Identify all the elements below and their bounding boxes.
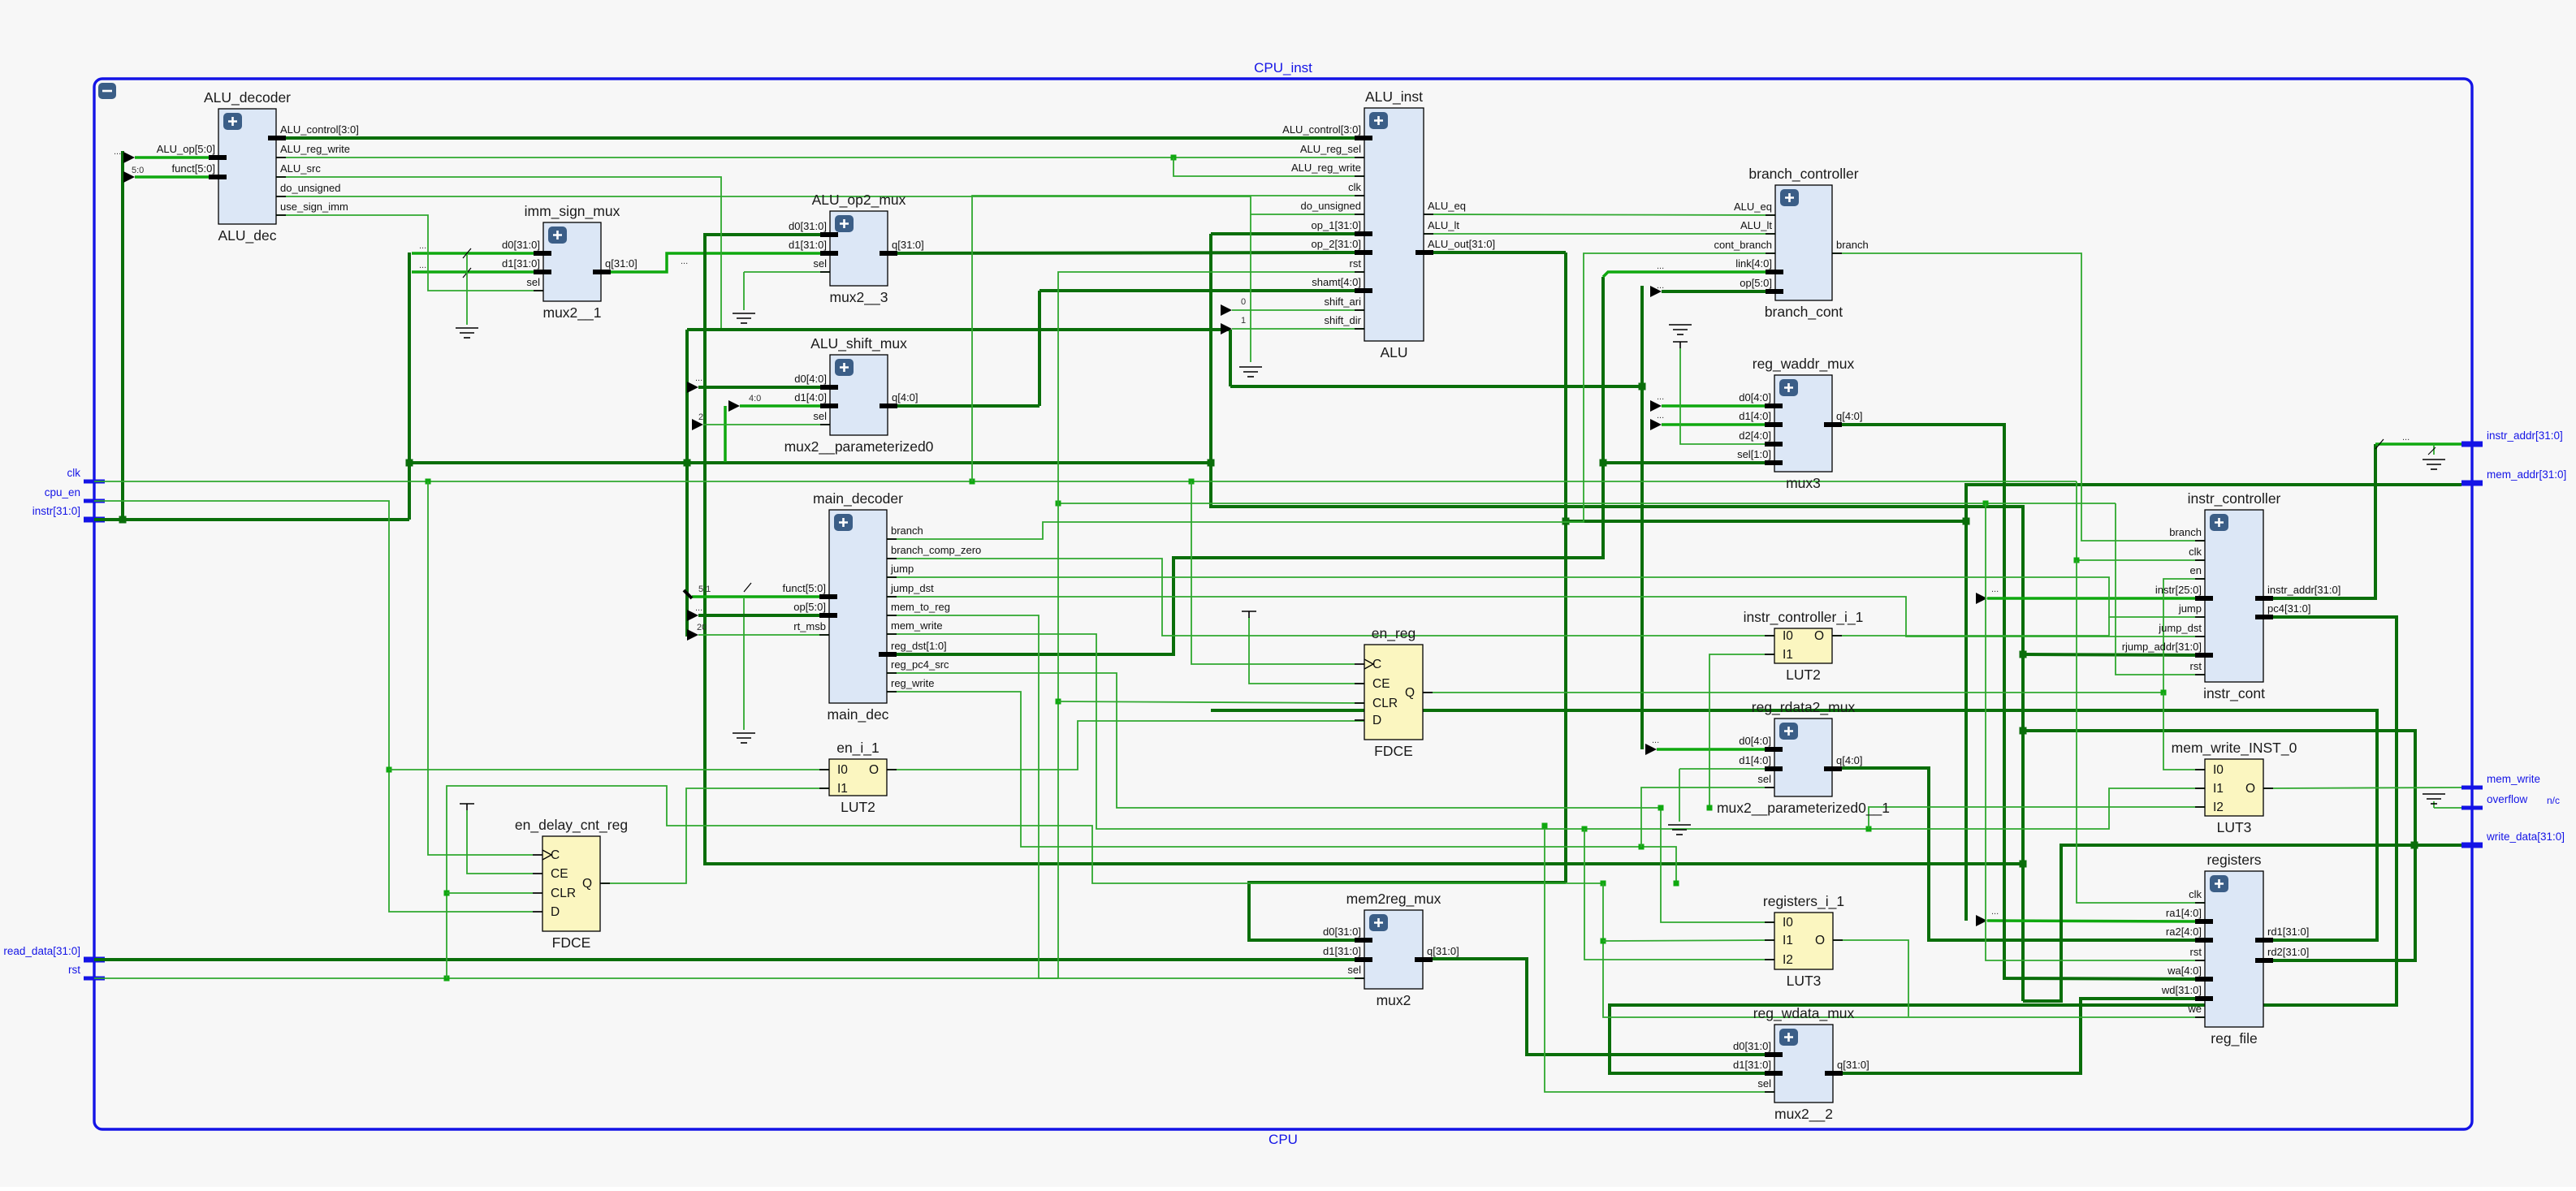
ground mux3 d2 bbox=[1669, 325, 1692, 334]
svg-text:...: ... bbox=[114, 147, 121, 157]
svg-text:I1: I1 bbox=[1783, 934, 1793, 947]
svg-text:mux3: mux3 bbox=[1786, 475, 1821, 491]
wire en_delay Q to en_i_1 I1 bbox=[602, 788, 829, 883]
ground under funct tap bbox=[733, 733, 755, 743]
svg-text:sel: sel bbox=[1757, 773, 1771, 785]
svg-text:C: C bbox=[1372, 658, 1381, 671]
wire rjump_addr to instr_cont bbox=[2023, 654, 2205, 655]
svg-text:d0[31:0]: d0[31:0] bbox=[789, 220, 827, 232]
ground ALU do_unsigned bbox=[1239, 367, 1262, 377]
svg-text:I1: I1 bbox=[2213, 782, 2224, 796]
block instr_controller_i_1 LUT2 bbox=[1744, 609, 1864, 683]
svg-text:jump_dst: jump_dst bbox=[2158, 622, 2202, 634]
wire instr vertical left bbox=[121, 151, 124, 520]
wire rdata2 d0 slice bbox=[1657, 748, 1774, 751]
const1 tie en_delay CE bbox=[460, 804, 474, 810]
svg-text:mem_addr[31:0]: mem_addr[31:0] bbox=[2487, 468, 2566, 481]
junction instr maindec bbox=[684, 460, 691, 467]
wire pc4 to wdata d1 bbox=[1610, 617, 2397, 1073]
svg-text:CE: CE bbox=[1372, 677, 1390, 691]
svg-text:rt_msb: rt_msb bbox=[793, 620, 826, 632]
wire rd2 to write_data bbox=[2023, 845, 2461, 1001]
svg-text:O: O bbox=[2245, 782, 2255, 796]
svg-text:...: ... bbox=[1657, 411, 1664, 421]
svg-text:branch_comp_zero: branch_comp_zero bbox=[891, 544, 981, 556]
svg-text:C: C bbox=[551, 848, 560, 862]
wire clk to registers bbox=[2077, 560, 2205, 903]
wire branch to cont_branch bbox=[887, 253, 1775, 539]
svg-text:write_data[31:0]: write_data[31:0] bbox=[2486, 831, 2565, 843]
wire shift_dir bbox=[1232, 328, 1364, 330]
junction we I1 bbox=[1601, 939, 1606, 944]
svg-text:branch: branch bbox=[891, 524, 923, 537]
wire jump_dst bbox=[887, 597, 2205, 636]
block registers bbox=[2161, 852, 2309, 1047]
svg-text:ALU_shift_mux: ALU_shift_mux bbox=[810, 335, 907, 352]
svg-text:en_reg: en_reg bbox=[1372, 625, 1416, 642]
wire to we bbox=[1603, 883, 2205, 1017]
svg-text:LUT3: LUT3 bbox=[2217, 819, 2252, 835]
svg-text:...: ... bbox=[2402, 433, 2410, 442]
block registers_i_1 LUT3 bbox=[1763, 893, 1844, 989]
wire instr trunk y570 bbox=[409, 461, 1211, 464]
svg-text:reg_dst[1:0]: reg_dst[1:0] bbox=[891, 640, 947, 652]
svg-text:5:0: 5:0 bbox=[132, 166, 144, 175]
wire cpu_en to en_i_1 I0 bbox=[389, 769, 829, 770]
wire tie to ground bbox=[466, 255, 468, 325]
svg-text:op[5:0]: op[5:0] bbox=[1740, 277, 1772, 289]
wire rst to en_delay CLR bbox=[447, 892, 533, 894]
svg-text:d1[31:0]: d1[31:0] bbox=[1733, 1059, 1771, 1071]
wire link slice bbox=[1603, 272, 1775, 277]
wire instr_addr slice bbox=[2375, 442, 2461, 446]
junction rst bbox=[444, 976, 450, 982]
wire instr vert to ra1 bbox=[1964, 521, 1968, 921]
svg-text:sel: sel bbox=[1347, 964, 1361, 976]
svg-text:D: D bbox=[1372, 714, 1381, 727]
svg-text:en_delay_cnt_reg: en_delay_cnt_reg bbox=[515, 817, 628, 834]
svg-text:clk: clk bbox=[2189, 888, 2202, 900]
wire registers_i_1 O to we bbox=[1833, 940, 1908, 1016]
svg-text:registers_i_1: registers_i_1 bbox=[1763, 893, 1844, 910]
block ALU_op2_mux bbox=[789, 192, 924, 306]
svg-text:Q: Q bbox=[1405, 686, 1415, 700]
svg-text:sel: sel bbox=[526, 276, 540, 288]
junction clk instr_cont bbox=[2074, 558, 2080, 563]
svg-text:mem2reg_mux: mem2reg_mux bbox=[1346, 891, 1441, 908]
port overflow bbox=[2461, 806, 2483, 810]
svg-text:ALU_op[5:0]: ALU_op[5:0] bbox=[157, 143, 215, 155]
svg-text:mux2__parameterized0: mux2__parameterized0 bbox=[784, 438, 934, 455]
svg-text:FDCE: FDCE bbox=[1374, 743, 1413, 759]
svg-text:...: ... bbox=[1652, 736, 1659, 745]
svg-text:mem_write: mem_write bbox=[2487, 773, 2540, 785]
wire ALU_control bus decoder to ALU bbox=[276, 136, 1364, 140]
svg-text:ra1[4:0]: ra1[4:0] bbox=[2166, 907, 2202, 919]
svg-text:ALU_control[3:0]: ALU_control[3:0] bbox=[280, 123, 359, 136]
svg-text:jump: jump bbox=[890, 563, 914, 575]
svg-text:d1[4:0]: d1[4:0] bbox=[1739, 754, 1771, 766]
svg-text:instr[25:0]: instr[25:0] bbox=[2155, 584, 2202, 596]
svg-text:mux2: mux2 bbox=[1377, 992, 1411, 1008]
svg-text:branch: branch bbox=[2169, 526, 2202, 538]
block ALU_decoder bbox=[157, 89, 359, 244]
svg-text:clk: clk bbox=[67, 467, 81, 479]
wire funct tie bbox=[743, 598, 745, 730]
junction write_data bbox=[2411, 842, 2418, 849]
svg-text:branch_cont: branch_cont bbox=[1765, 304, 1843, 321]
wire reg_write down bbox=[887, 692, 1676, 883]
junction rst x1303 bbox=[1056, 501, 1061, 507]
wire mux3 d0 slice bbox=[1662, 404, 1774, 408]
svg-text:shamt[4:0]: shamt[4:0] bbox=[1312, 276, 1361, 288]
wire imm d1 slice bbox=[412, 270, 543, 274]
svg-text:20: 20 bbox=[697, 623, 707, 632]
svg-text:...: ... bbox=[695, 373, 702, 383]
svg-text:1: 1 bbox=[1241, 316, 1246, 326]
wire overflow nc bbox=[2434, 807, 2461, 809]
svg-text:sel: sel bbox=[813, 257, 827, 270]
block instr_controller bbox=[2122, 490, 2341, 702]
svg-text:overflow: overflow bbox=[2487, 793, 2528, 805]
svg-text:d0[4:0]: d0[4:0] bbox=[1739, 735, 1771, 747]
svg-text:ALU: ALU bbox=[1380, 344, 1407, 360]
wire instr_addr up bbox=[2263, 444, 2375, 598]
svg-text:rjump_addr[31:0]: rjump_addr[31:0] bbox=[2122, 641, 2202, 653]
svg-text:clk: clk bbox=[1348, 181, 1361, 193]
junction rd2 instr vertical bbox=[2020, 727, 2027, 735]
wire ALU_out down bbox=[1564, 252, 1567, 882]
junction I2 feed bbox=[1582, 826, 1588, 832]
wire rst trunk right bbox=[1058, 503, 2116, 504]
svg-text:d0[31:0]: d0[31:0] bbox=[502, 239, 540, 251]
collapse icon bbox=[98, 83, 116, 99]
svg-text:sel: sel bbox=[813, 410, 827, 422]
svg-text:instr_controller: instr_controller bbox=[2188, 490, 2281, 507]
ground under imm_sign_mux bbox=[456, 328, 478, 338]
wire imm q to op2mux d1 bbox=[601, 253, 830, 272]
svg-text:funct[5:0]: funct[5:0] bbox=[172, 162, 215, 175]
svg-text:instr_addr[31:0]: instr_addr[31:0] bbox=[2267, 584, 2340, 596]
wire do_unsigned bbox=[276, 196, 1364, 214]
svg-text:...: ... bbox=[419, 261, 426, 270]
port instr[31:0] bbox=[84, 517, 105, 523]
svg-text:...: ... bbox=[1991, 907, 1999, 917]
wire mux3 d1 slice bbox=[1662, 423, 1774, 426]
wire instr_controller_i_1 O bbox=[1833, 635, 2109, 636]
wire instr[31:0] from port bbox=[94, 518, 409, 521]
wire funct slice bbox=[692, 595, 829, 598]
wire mem_addr from ALU_out bbox=[1564, 485, 2461, 521]
svg-text:wd[31:0]: wd[31:0] bbox=[2161, 984, 2202, 996]
wire rd1 feedback to op1 bbox=[1211, 710, 2377, 940]
block en_i_1 LUT2 bbox=[819, 740, 897, 815]
wire mem2reg q to wdata d0 bbox=[1423, 959, 1774, 1055]
wire en_reg CE bbox=[1249, 617, 1364, 684]
svg-text:CLR: CLR bbox=[1372, 697, 1398, 710]
svg-text:ALU_eq: ALU_eq bbox=[1428, 200, 1466, 212]
svg-text:q[31:0]: q[31:0] bbox=[892, 239, 924, 251]
wire instr x1515 bbox=[1229, 330, 1232, 386]
svg-text:registers: registers bbox=[2206, 852, 2261, 868]
wire imm d0 slice bbox=[412, 252, 543, 255]
wire mux3 q to registers wa bbox=[1832, 425, 2205, 979]
svg-text:4:0: 4:0 bbox=[749, 394, 761, 403]
wire op2mux q to ALU op_2 bbox=[888, 252, 1364, 253]
svg-text:d1[31:0]: d1[31:0] bbox=[1323, 945, 1361, 957]
wire tie down bbox=[1250, 214, 1251, 362]
svg-text:ALU_dec: ALU_dec bbox=[218, 227, 277, 244]
port write_data[31:0] bbox=[2461, 843, 2483, 848]
junction instr y570 bbox=[406, 460, 413, 467]
wire instr vertical x2022 bbox=[1640, 286, 1644, 749]
wire wdata q to registers wd bbox=[1833, 999, 2205, 1073]
junction clk ALU bbox=[970, 479, 975, 485]
wire funct slice bbox=[135, 175, 218, 179]
svg-text:0: 0 bbox=[1241, 297, 1246, 307]
svg-text:d0[4:0]: d0[4:0] bbox=[1739, 391, 1771, 403]
svg-text:CLR: CLR bbox=[551, 887, 576, 900]
svg-text:reg_waddr_mux: reg_waddr_mux bbox=[1753, 356, 1855, 373]
wire en_i_1 O to en_reg D bbox=[887, 721, 1364, 770]
wire instr vertical mid bbox=[408, 252, 411, 520]
wire mem_write out bbox=[2263, 788, 2461, 788]
svg-text:q[4:0]: q[4:0] bbox=[892, 391, 918, 403]
junction I1 feed bbox=[1601, 881, 1606, 887]
wire shift d1 bbox=[740, 404, 830, 408]
wire clk to en_reg C bbox=[1191, 481, 1355, 664]
wire rst to ALU bbox=[1058, 272, 1364, 978]
svg-text:d0[31:0]: d0[31:0] bbox=[1733, 1040, 1771, 1052]
junction instr2 x2022 bbox=[1639, 383, 1646, 391]
wire en_reg Q to en bbox=[1423, 579, 2205, 693]
wire ALU_eq bbox=[1424, 214, 1775, 215]
block branch_controller bbox=[1714, 166, 1868, 321]
block reg_rdata2_mux bbox=[1717, 699, 1890, 817]
block ALU_inst bbox=[1282, 88, 1495, 360]
wire jump bbox=[887, 577, 2205, 617]
svg-text:imm_sign_mux: imm_sign_mux bbox=[525, 203, 620, 220]
junction reg_write step bbox=[1171, 155, 1177, 161]
wire op slice to branch_cont bbox=[1662, 290, 1775, 293]
svg-text:ALU_control[3:0]: ALU_control[3:0] bbox=[1282, 123, 1361, 136]
svg-text:mem_write_INST_0: mem_write_INST_0 bbox=[2172, 740, 2297, 757]
svg-text:q[4:0]: q[4:0] bbox=[1836, 410, 1863, 422]
wire ALU op_1 input bbox=[1211, 232, 1364, 235]
svg-text:...: ... bbox=[1991, 585, 1999, 594]
wire op2mux sel bbox=[744, 271, 830, 273]
block main_decoder bbox=[783, 490, 982, 723]
svg-text:main_decoder: main_decoder bbox=[813, 490, 903, 507]
junction mem_write bbox=[1866, 826, 1872, 832]
svg-text:I0: I0 bbox=[2213, 763, 2224, 777]
svg-text:sel[1:0]: sel[1:0] bbox=[1737, 448, 1771, 460]
wire reg_dst chain bbox=[887, 277, 1603, 654]
svg-text:instr_cont: instr_cont bbox=[2203, 685, 2265, 702]
junction instr left bbox=[119, 516, 127, 524]
svg-text:...: ... bbox=[695, 603, 702, 613]
wire clk to instr_cont bbox=[2077, 481, 2205, 560]
svg-text:CE: CE bbox=[551, 867, 568, 881]
svg-text:I1: I1 bbox=[837, 782, 848, 796]
svg-text:mux2__parameterized0__1: mux2__parameterized0__1 bbox=[1717, 800, 1890, 817]
wire instr y406 line bbox=[687, 328, 1230, 331]
wire shift mux q bbox=[888, 404, 1039, 408]
wire rst from port bbox=[94, 977, 1058, 979]
svg-text:wa[4:0]: wa[4:0] bbox=[2167, 964, 2202, 977]
wire reg_pc4_src bbox=[887, 673, 1774, 922]
svg-text:instr_controller_i_1: instr_controller_i_1 bbox=[1744, 609, 1864, 626]
junction reg_dst sel bbox=[1600, 460, 1607, 467]
ground op2mux sel bbox=[733, 313, 755, 323]
svg-text:shift_ari: shift_ari bbox=[1324, 296, 1361, 308]
svg-text:d1[31:0]: d1[31:0] bbox=[502, 257, 540, 270]
wire rst to instr_cont bbox=[2116, 503, 2205, 675]
svg-text:D: D bbox=[551, 905, 560, 919]
block en_delay_cnt_reg FDCE bbox=[515, 817, 628, 951]
svg-text:q[4:0]: q[4:0] bbox=[1836, 754, 1863, 766]
block mem2reg_mux bbox=[1323, 891, 1459, 1008]
wire ALU_out to mem2reg d0 bbox=[1249, 882, 1566, 940]
svg-text:mem_write: mem_write bbox=[891, 619, 943, 632]
wire mux3 sel bbox=[1603, 461, 1774, 464]
port mem_write bbox=[2461, 786, 2483, 790]
svg-text:O: O bbox=[869, 763, 879, 777]
junction en bbox=[2161, 690, 2167, 696]
svg-text:shift_dir: shift_dir bbox=[1324, 314, 1361, 326]
svg-text:we: we bbox=[2187, 1003, 2202, 1015]
svg-text:ALU_src: ALU_src bbox=[280, 162, 321, 175]
wire ALU_out bbox=[1424, 251, 1566, 254]
svg-text:I0: I0 bbox=[837, 763, 848, 777]
junction wdata sel bbox=[1542, 823, 1548, 829]
port cpu_en bbox=[84, 499, 105, 503]
junction cpu_en bbox=[387, 767, 392, 773]
wire rdata2 q to ra2 bbox=[1833, 768, 2205, 940]
wire ALU_src down bbox=[276, 177, 721, 328]
junction clk en_reg bbox=[1189, 479, 1195, 485]
svg-text:do_unsigned: do_unsigned bbox=[1301, 200, 1361, 212]
svg-text:reg_rdata2_mux: reg_rdata2_mux bbox=[1752, 699, 1856, 716]
svg-text:ALU_reg_write: ALU_reg_write bbox=[280, 143, 350, 155]
wire clk to en_delay C bbox=[428, 481, 533, 855]
wire clk trunk bbox=[94, 481, 2077, 482]
wire shift sel bbox=[703, 424, 830, 425]
svg-text:clk: clk bbox=[2189, 546, 2202, 558]
svg-text:cont_branch: cont_branch bbox=[1714, 239, 1772, 251]
junction reg_write sel bbox=[1639, 844, 1645, 850]
svg-text:I0: I0 bbox=[1783, 629, 1793, 643]
svg-text:read_data[31:0]: read_data[31:0] bbox=[3, 945, 80, 957]
wire shamt into ALU bbox=[1039, 289, 1364, 292]
wire shift_ari bbox=[1232, 309, 1364, 311]
wire y476 trunk bbox=[1230, 385, 1642, 388]
svg-text:n/c: n/c bbox=[2547, 795, 2560, 806]
svg-text:branch: branch bbox=[1836, 239, 1869, 251]
wire wdata sel bbox=[1545, 826, 1774, 1092]
wire shift d1 riser bbox=[724, 406, 727, 462]
junction rst registers bbox=[1983, 501, 1989, 507]
svg-text:LUT3: LUT3 bbox=[1787, 973, 1822, 989]
svg-text:Q: Q bbox=[582, 877, 592, 891]
svg-text:op[5:0]: op[5:0] bbox=[793, 601, 826, 613]
svg-text:rd2[31:0]: rd2[31:0] bbox=[2267, 946, 2309, 958]
svg-text:d1[4:0]: d1[4:0] bbox=[1739, 410, 1771, 422]
svg-text:d2[4:0]: d2[4:0] bbox=[1739, 429, 1771, 442]
wire branch_comp_zero bbox=[887, 559, 1774, 636]
wire to registers_i_1 I2 bbox=[1584, 829, 1774, 960]
port rst bbox=[84, 977, 105, 981]
svg-text:mux2__3: mux2__3 bbox=[830, 289, 888, 306]
wire shift d0 bbox=[698, 386, 830, 389]
wire rt_msb slice bbox=[698, 634, 829, 636]
junction I1 lut2 bbox=[1707, 805, 1713, 811]
svg-text:I1: I1 bbox=[1783, 648, 1793, 662]
wire instr tap main_dec bbox=[685, 330, 689, 636]
svg-text:mux2__1: mux2__1 bbox=[543, 304, 602, 321]
svg-text:ra2[4:0]: ra2[4:0] bbox=[2166, 926, 2202, 938]
wire op slice bbox=[698, 614, 829, 617]
svg-text:cpu_en: cpu_en bbox=[45, 486, 80, 498]
const1 tie en_reg bbox=[1242, 611, 1256, 618]
svg-text:q[31:0]: q[31:0] bbox=[1837, 1059, 1869, 1071]
wire rst staircase bbox=[447, 786, 1603, 978]
svg-text:I2: I2 bbox=[2213, 800, 2224, 814]
svg-text:link[4:0]: link[4:0] bbox=[1735, 257, 1772, 270]
junction ALU_out memaddr bbox=[1562, 518, 1570, 525]
wire read_data to mem2reg d1 bbox=[94, 958, 1364, 961]
svg-text:en: en bbox=[2190, 564, 2202, 576]
svg-text:ALU_eq: ALU_eq bbox=[1734, 201, 1772, 213]
svg-text:mux2__2: mux2__2 bbox=[1774, 1106, 1833, 1123]
port read_data[31:0] bbox=[84, 957, 105, 963]
wire rst to registers bbox=[1986, 503, 2205, 960]
svg-text:2: 2 bbox=[698, 412, 703, 422]
wire rdata2 sel bbox=[1641, 788, 1775, 847]
svg-text:ALU_reg_sel: ALU_reg_sel bbox=[1300, 143, 1361, 155]
wire ALU_op slice bbox=[135, 156, 218, 159]
wire en to LUT3 I0 bbox=[2163, 693, 2205, 770]
svg-text:LUT2: LUT2 bbox=[841, 799, 875, 815]
wire instr_controller_i_1 I1 bbox=[1709, 654, 1774, 808]
svg-text:mem_to_reg: mem_to_reg bbox=[891, 601, 950, 613]
svg-text:instr[31:0]: instr[31:0] bbox=[32, 505, 80, 517]
svg-text:pc4[31:0]: pc4[31:0] bbox=[2267, 602, 2311, 615]
svg-text:CPU_inst: CPU_inst bbox=[1254, 60, 1312, 76]
svg-text:CPU: CPU bbox=[1269, 1132, 1298, 1147]
svg-text:op_2[31:0]: op_2[31:0] bbox=[1312, 238, 1361, 250]
wire rdata2 d1 bbox=[1679, 768, 1774, 770]
wire use_sign_imm to imm sel bbox=[276, 215, 543, 291]
svg-text:...: ... bbox=[1657, 261, 1664, 271]
wire mux3 d2 tie bbox=[1680, 348, 1774, 444]
block reg_wdata_mux bbox=[1733, 1005, 1869, 1123]
svg-text:FDCE: FDCE bbox=[552, 934, 591, 951]
svg-text:jump: jump bbox=[2178, 602, 2202, 615]
svg-text:reg_pc4_src: reg_pc4_src bbox=[891, 658, 949, 671]
svg-text:reg_wdata_mux: reg_wdata_mux bbox=[1753, 1005, 1855, 1022]
wire x1491 vertical / y624 trunk bbox=[1211, 234, 2023, 1001]
svg-text:d0[31:0]: d0[31:0] bbox=[1323, 926, 1361, 938]
svg-text:sel: sel bbox=[1757, 1077, 1771, 1090]
junction pc4src bbox=[1658, 805, 1664, 811]
svg-text:rst: rst bbox=[2190, 946, 2202, 958]
svg-text:d1[4:0]: d1[4:0] bbox=[794, 391, 827, 403]
svg-text:do_unsigned: do_unsigned bbox=[280, 182, 340, 194]
wire ALU_lt bbox=[1424, 233, 1775, 235]
svg-text:...: ... bbox=[419, 241, 426, 251]
svg-text:q[31:0]: q[31:0] bbox=[605, 257, 638, 270]
